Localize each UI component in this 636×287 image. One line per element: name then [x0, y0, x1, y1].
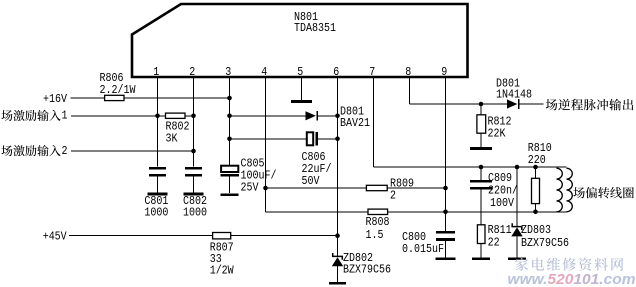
resistor R808 1.5 — [368, 209, 388, 214]
junction dot pin3 D801 line — [227, 114, 232, 119]
wire pin4 column and corner to R808 row — [265, 77, 267, 212]
wire diode to retrace output — [520, 103, 544, 105]
svg-text:1/2W: 1/2W — [210, 264, 235, 278]
capacitor C806 22uF/50V — [307, 132, 317, 146]
label field-deflection-coil — [573, 187, 584, 198]
svg-text:BZX79C56: BZX79C56 — [521, 236, 569, 250]
resistor R812 22K — [477, 115, 486, 133]
svg-text:3K: 3K — [166, 131, 179, 145]
wire pin7 column — [373, 77, 375, 167]
node field-drive-input-1 label — [1, 110, 12, 121]
wire pin1 column — [157, 77, 159, 167]
resistor R811 22 — [477, 225, 485, 244]
junction dot pin1 col input1 — [155, 114, 160, 119]
junction dot +16V at pin3 — [227, 96, 232, 101]
junction dot pin6 +45V row — [335, 233, 340, 238]
svg-text:TDA8351: TDA8351 — [294, 21, 336, 35]
resistor R810 220 — [532, 178, 540, 203]
wire pin9 column — [445, 77, 447, 231]
wire R806 to pin3 column — [124, 97, 230, 99]
svg-text:4: 4 — [261, 65, 267, 79]
junction dot R812 top — [479, 102, 484, 107]
wire pin5 stub — [301, 77, 303, 100]
resistor R806 2.2/1W — [105, 95, 124, 100]
svg-text:3: 3 — [225, 65, 231, 79]
wire pin2 column — [193, 77, 195, 167]
svg-text:1000: 1000 — [183, 206, 207, 220]
pin numbers 1-9 — [153, 65, 447, 79]
svg-text:100V: 100V — [490, 196, 515, 210]
wire R810 bottom lead — [535, 204, 537, 212]
wire R810 top lead — [535, 167, 537, 178]
capacitor C801 1000 — [149, 168, 166, 193]
wire pin4 corner to R808 — [266, 211, 369, 213]
ground C801 — [148, 193, 168, 196]
capacitor C809 220n/100V — [470, 181, 492, 225]
resistor R809 2 — [366, 185, 387, 190]
junction dot pin4 R809 row — [263, 186, 268, 191]
wire R809 to pin9 column — [387, 187, 445, 189]
node field-retrace-pulse-output label — [546, 99, 558, 110]
junction dot C809 top — [479, 165, 484, 170]
op-amp U N801 TDA8351 IC body — [132, 4, 468, 77]
junction dot pin3 C806 line — [227, 137, 232, 142]
wire pin7 to coil top — [374, 166, 567, 168]
wire R811 bottom lead — [480, 244, 482, 258]
junction dot ZD803 top — [515, 165, 520, 170]
ground C802 — [184, 193, 204, 196]
diode D801 BAV21 — [306, 111, 318, 121]
wire pin4 to R809 — [266, 187, 367, 189]
junction dot pin6 D801 row — [335, 114, 340, 119]
wire diode to pin6 column — [318, 115, 338, 117]
svg-text:22: 22 — [488, 236, 500, 250]
svg-text:2.2/1W: 2.2/1W — [100, 83, 137, 97]
ground ZD802 — [329, 282, 346, 285]
resistor R802 3K — [166, 113, 186, 118]
zener diode ZD803 BZX79C56 — [511, 223, 522, 257]
junction dot R810 bottom — [533, 210, 538, 215]
ground R812 — [470, 147, 492, 150]
resistor R807 33 1/2W — [213, 233, 231, 239]
svg-text:2: 2 — [189, 65, 195, 79]
wire pin3 to C806 — [230, 138, 307, 140]
ground pin5 — [291, 100, 312, 103]
svg-text:1N4148: 1N4148 — [496, 88, 532, 102]
junction dot pin2 col input2 — [191, 149, 196, 154]
svg-text:50V: 50V — [302, 174, 321, 188]
junction dot pin9 R809 row — [443, 186, 448, 191]
svg-text:1: 1 — [62, 109, 68, 123]
svg-text:ZD803: ZD803 — [521, 223, 551, 237]
wire R812 top lead — [480, 104, 482, 115]
wire R802 to pin2 column — [185, 115, 194, 117]
junction dot pin9 R808 row — [443, 210, 448, 215]
svg-text:+16V: +16V — [43, 92, 68, 106]
wire pin3 column — [229, 77, 231, 166]
svg-text:1: 1 — [153, 65, 159, 79]
capacitor C800 0.015uF — [436, 232, 455, 257]
inductor field deflection coil — [557, 168, 573, 212]
svg-text:6: 6 — [333, 65, 339, 79]
svg-text:1.5: 1.5 — [366, 228, 384, 242]
svg-text:2: 2 — [62, 144, 68, 158]
ground C805 — [221, 193, 239, 196]
capacitor C805 100uF/25V electrolytic — [221, 166, 239, 194]
svg-text:220: 220 — [528, 153, 546, 167]
ground ZD803 — [508, 258, 526, 261]
diode D801 1N4148 — [507, 99, 519, 109]
wire pin8 corner to R812 junction — [410, 103, 508, 105]
svg-text:BAV21: BAV21 — [340, 116, 370, 130]
svg-text:8: 8 — [405, 65, 411, 79]
svg-text:www.520101.com: www.520101.com — [508, 272, 636, 287]
wire ZD803 top lead — [516, 167, 518, 227]
ground R811 — [472, 258, 490, 261]
wire pin3 to diode D801 BAV21 — [230, 115, 306, 117]
capacitor C802 1000 — [185, 168, 202, 193]
wire R808 to deflection coil — [388, 211, 567, 213]
wire +45V to R807 — [69, 235, 213, 237]
svg-text:0.015uF: 0.015uF — [402, 242, 444, 256]
svg-text:2: 2 — [390, 189, 396, 203]
node field-drive-input-2 label — [1, 145, 12, 156]
wire +16V to R806 — [71, 97, 105, 99]
wire input1 to R802 — [71, 115, 166, 117]
wire R807 to pin6 column — [231, 235, 338, 237]
watermark chinese text — [515, 258, 528, 271]
wire C806 to pin6 column — [318, 138, 337, 140]
junction dot pin2 col input1 — [191, 114, 196, 119]
wire pin6 column — [337, 77, 339, 256]
wire pin8 column — [409, 77, 411, 104]
svg-text:1000: 1000 — [144, 206, 168, 220]
junction dot pin6 C806 row — [335, 137, 340, 142]
svg-text:9: 9 — [441, 65, 447, 79]
svg-text:7: 7 — [369, 65, 375, 79]
svg-text:22K: 22K — [488, 127, 507, 141]
junction dot R810 top — [533, 165, 538, 170]
wire C809 top lead — [480, 167, 482, 180]
zener diode ZD802 BZX79C56 — [332, 253, 343, 283]
svg-text:BZX79C56: BZX79C56 — [343, 263, 391, 277]
svg-text:5: 5 — [297, 65, 303, 79]
ground C800 — [436, 258, 456, 261]
svg-text:+45V: +45V — [43, 230, 68, 244]
wire R812 bottom lead — [480, 133, 482, 147]
wire input2 to pin2 column — [71, 150, 194, 152]
svg-text:25V: 25V — [241, 181, 260, 195]
